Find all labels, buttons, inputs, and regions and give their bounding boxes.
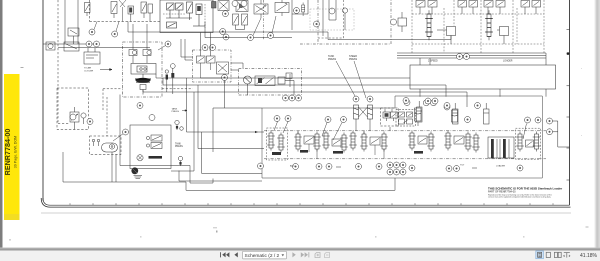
node circle 33c [210, 45, 216, 51]
brake booster oval body [102, 143, 118, 152]
pump bus line 1 [397, 52, 546, 54]
node circle 27b [137, 103, 143, 109]
nav prev-page button [234, 252, 237, 257]
node circle cluster row2 b [394, 169, 400, 175]
svg-text:-: - [581, 133, 582, 137]
bank section S3 relief [332, 139, 341, 146]
main fan valve solid block [160, 0, 213, 33]
view mode icon single page [546, 252, 550, 257]
pilot manifold inner gauge [342, 8, 347, 30]
svg-text:LOADER: LOADER [496, 165, 505, 168]
steering valve element L [383, 109, 390, 121]
svg-text:TO AIR: TO AIR [84, 67, 92, 70]
engine compartment dash-dot enclosure [123, 42, 163, 97]
fan drive manifold dashed enclosure [90, 0, 161, 22]
page corner fold mark [21, 67, 24, 69]
bank section S2 dark port [300, 150, 308, 153]
parking brake port stems [201, 63, 223, 78]
window right edge strip [594, 0, 600, 248]
gauge G1 [81, 113, 86, 124]
node circle 17b [457, 54, 463, 60]
node circle 56 [454, 166, 460, 172]
bank section S7 frame [488, 137, 514, 158]
solenoid valve V2 [111, 2, 117, 19]
pilot manifold faint inner dashed box [310, 9, 354, 30]
bank section S5 dark port [414, 151, 423, 154]
tank bottom long wire [63, 152, 395, 190]
parking brake valve B [207, 33, 216, 64]
node circle 3 [314, 21, 320, 27]
node circle 5 [132, 50, 136, 54]
node circle 6 [147, 50, 151, 54]
long bus wire under manifold [128, 22, 328, 33]
node circle 41 [425, 98, 431, 104]
bus wire Y92 [143, 90, 467, 108]
engine-to-cluster dashed link [162, 88, 193, 90]
parking brake servo box [217, 62, 229, 74]
node circle 19 [94, 41, 100, 47]
svg-text:PRESS: PRESS [328, 58, 337, 61]
charge pump hatch marks [134, 176, 143, 179]
node circle 47 [547, 118, 553, 124]
pump bus label right [503, 60, 513, 63]
node circle 17 [296, 95, 302, 101]
bank section S3 dark port [333, 151, 343, 154]
node circle 22 [367, 96, 373, 102]
manifold to engine pilot wire B [146, 24, 148, 50]
drive pump B servo box [497, 27, 509, 45]
svg-text:PRESS: PRESS [349, 58, 358, 61]
pump bus label left [428, 61, 438, 63]
bank section S1 dashed box [267, 128, 288, 160]
leader circle36 to section1 [274, 122, 288, 134]
bank feed wire upper [187, 78, 265, 132]
steering cluster drop wires [356, 122, 418, 131]
sensor drop wire [120, 95, 190, 166]
statusbar background [0, 251, 600, 261]
left margin note arrow [100, 69, 112, 71]
border zone marker blob [567, 52, 569, 54]
node circle 45 [525, 117, 531, 123]
pilot valve A5 [302, 3, 305, 17]
node circle 42 [432, 98, 438, 104]
crossover X link [356, 107, 370, 124]
tank press label [175, 143, 183, 149]
fan pump outlet fitting [140, 85, 146, 95]
manifold to engine pilot wire A [132, 24, 134, 50]
pump bus line 3 [397, 57, 546, 59]
node circle 21 [353, 96, 359, 102]
bank section S8 leader [523, 124, 527, 140]
svg-text:41.18%: 41.18% [580, 253, 598, 259]
header wire H1 [43, 44, 150, 48]
node circle 34 [232, 1, 238, 7]
hand pump drop wires [248, 81, 295, 96]
node circle 57 [517, 165, 523, 171]
right margin zone letter [581, 66, 582, 137]
svg-text:Schematic (2 / 2: Schematic (2 / 2 [245, 253, 280, 259]
node circle 50 [316, 164, 322, 170]
history forward icon (disabled) [325, 253, 330, 258]
node circle 2 [294, 8, 300, 14]
hystat valve lower [151, 143, 162, 149]
bank section S4 valve box [370, 137, 380, 145]
schematic note title [488, 187, 563, 199]
sensor S2 with circle [165, 70, 168, 92]
bank section S2 spool B [313, 132, 321, 152]
node circle 24b [431, 100, 437, 106]
node circle 18 [464, 54, 470, 60]
separator dash-dot vertical [262, 0, 264, 40]
breather B1 [68, 28, 79, 44]
bank section S4 stems [364, 131, 384, 159]
mid press label [172, 108, 180, 114]
page lower faint edge line [41, 212, 571, 214]
svg-text:PRESS: PRESS [175, 146, 183, 148]
valve assembly A3 [254, 0, 268, 18]
top feed wires into manifold [323, 0, 336, 36]
page faint ruler dots row [9, 227, 589, 241]
schematic sheet border right [569, 0, 571, 205]
parking outlet drop wire [224, 81, 226, 109]
node circle cluster row2 a [387, 169, 393, 175]
node circle 51 [326, 164, 332, 170]
pilot line from engine left [103, 89, 123, 136]
node circle 37 [285, 116, 291, 122]
lift cylinder C1 [417, 101, 423, 122]
node circle 39 [341, 117, 347, 123]
node circle 16 [289, 95, 295, 101]
check valve pair V4 [141, 2, 153, 22]
node circle 43 [444, 103, 450, 109]
svg-text:TANK: TANK [172, 108, 178, 111]
node circle cluster row1 a [387, 162, 393, 168]
bank gallery dash-dot line lower [264, 158, 546, 160]
gauge G3 [175, 120, 179, 130]
tank label with leader [328, 55, 337, 61]
svg-text:PART OF RENR7784-00: PART OF RENR7784-00 [488, 191, 516, 194]
return branch vertical A [64, 0, 66, 44]
shuttle valve cluster box [84, 48, 100, 64]
pump control cluster header boxes group4 [521, 1, 541, 15]
manifold to pump-region connector wire [328, 32, 451, 40]
history back icon (disabled) [315, 253, 320, 258]
node circle 38 [325, 117, 331, 123]
page combo field [243, 251, 287, 259]
node circle 47 stub [553, 121, 558, 132]
bank section S6 spool C [472, 133, 480, 153]
node circle 4 [329, 8, 335, 14]
brake booster port circle [109, 144, 114, 149]
crossover relief pair right spool [368, 105, 373, 119]
pilot supply dashed vertical [58, 0, 70, 124]
bank section S8 spool B [533, 132, 541, 152]
fan pump dark rotor [135, 74, 151, 83]
pilot manifold empty dashed enclosure [300, 0, 391, 44]
view mode icon facing [554, 252, 561, 257]
hand pump fitting [278, 74, 294, 87]
gauge G2 [170, 64, 175, 73]
bank section S5 spool B [427, 132, 435, 152]
node circle cluster row1 c [400, 162, 406, 168]
view mode icon continuous (active) [536, 251, 544, 259]
steer label leader line [354, 61, 366, 98]
svg-text:RENR7784-00: RENR7784-00 [3, 129, 12, 176]
gauge G5 [178, 156, 182, 166]
mid press label arrow [182, 110, 187, 112]
svg-text:39 Page, B/W, DOM: 39 Page, B/W, DOM [14, 136, 18, 168]
cooler outlet drops [420, 89, 546, 97]
main control valve enclosure [262, 96, 542, 178]
parking brake pilot cluster dashed box [193, 50, 232, 82]
valve assembly A4 [275, 0, 289, 16]
return staircase wire [179, 171, 262, 182]
bank section S4 spool B [380, 132, 388, 152]
bank section S5 spool A [408, 131, 416, 151]
node circle 33 [444, 104, 450, 110]
secondary bus wire under manifold [205, 22, 292, 38]
node circle 6b [222, 11, 228, 17]
steering valve dashed box [381, 108, 399, 126]
tow valve small [286, 73, 292, 79]
leader circle 28 to booster [113, 134, 123, 141]
drive pump A spool [425, 10, 433, 40]
leader from circle 1 [94, 22, 119, 32]
yellow document tab [3, 74, 19, 220]
node circle 54 [409, 165, 415, 171]
leader circle 5b [158, 46, 166, 51]
bank exit wire right [558, 121, 570, 147]
steer label with leader [349, 55, 358, 61]
svg-text:2 SPEED: 2 SPEED [428, 61, 438, 63]
brake booster pin valve A [92, 139, 95, 146]
filter F1 [46, 42, 55, 50]
left margin note text [84, 67, 94, 73]
node circle 27 [87, 119, 93, 125]
hand pump circle [244, 76, 252, 84]
node circle 23 [404, 100, 410, 106]
bank section S1 spool B [277, 133, 285, 153]
compensator block dashed [396, 110, 416, 127]
node circle 52 [356, 164, 362, 170]
hand pump valve block [255, 76, 275, 86]
pilot cluster feed wires [181, 39, 193, 60]
pump control cluster header boxes group1 [416, 1, 437, 15]
gauge G4 [180, 127, 184, 131]
bus wire Y85 [163, 78, 446, 97]
nav next-page button (disabled) [292, 252, 295, 257]
svg-text:service manual for updated com: service manual for updated component ide… [488, 195, 552, 198]
statusbar divider band [0, 248, 600, 251]
solenoid valve V1 [85, 3, 91, 17]
bank section S6 valve box [454, 136, 464, 144]
bank feed staircase third [202, 132, 263, 173]
tank label leader line [336, 61, 356, 98]
oil cooler large box [410, 65, 556, 89]
fan return valve pair cluster [233, 14, 248, 30]
steering valve element R [391, 109, 398, 121]
node circle 14 [248, 35, 254, 41]
window left edge strip [0, 0, 3, 248]
brake booster pin valve B [97, 139, 100, 146]
pump bus line 2 [397, 55, 546, 57]
node circle 30 [89, 29, 95, 35]
solenoid valve V3 dark [128, 6, 134, 22]
bank section S6 spool A [444, 131, 452, 151]
node circle cluster row1 b [394, 162, 400, 168]
bank feed wire middle [198, 85, 264, 149]
node circle 28 [123, 129, 129, 135]
node circle 13 [220, 29, 226, 35]
node circle 48 [547, 129, 553, 135]
parking brake valve A [197, 33, 206, 64]
nav first-page button [220, 252, 229, 257]
bank feed arrowhead [255, 131, 258, 133]
node circle 15 [268, 33, 274, 39]
hystat motor circle [137, 155, 143, 161]
bank internal labels [290, 165, 505, 168]
brake accumulator cluster dashed box [57, 88, 89, 130]
node circle 53 [376, 164, 382, 170]
bank section S2 stems [298, 131, 317, 159]
filter F2 [64, 42, 79, 51]
node circle 26 [70, 114, 76, 120]
cooler feed stubs [420, 53, 546, 65]
brake booster dashed box [90, 136, 122, 155]
hystat valve upper pilot circle [146, 136, 149, 139]
bank section S2 spool A [294, 132, 302, 152]
node circle 7 [391, 19, 397, 25]
bank section S1 spool A [267, 131, 275, 151]
node circle 35 [241, 1, 247, 7]
pilot cluster outlet wires [231, 63, 243, 70]
node circle 24 [423, 100, 429, 106]
tank return line vertical [42, 0, 44, 201]
hystat valve upper [151, 135, 162, 141]
bank section S4 spool A [360, 132, 368, 152]
sheet bottom tick marks [70, 203, 553, 205]
enclosure feed vertical [212, 108, 214, 152]
sheet border right tick marks [567, 30, 570, 181]
solenoid block SB0 [398, 12, 407, 32]
svg-text:PRESS: PRESS [172, 111, 180, 113]
charge pump dark circle [131, 167, 138, 174]
drive pump B spool [485, 10, 493, 40]
bank section S3 spool C [349, 131, 357, 151]
leader to valve assembly [253, 16, 276, 36]
svg-text:AUX: AUX [290, 165, 295, 168]
bank section S7 dark spool A [491, 139, 494, 158]
node circle 29 [149, 115, 155, 121]
engine block [131, 64, 156, 75]
crossing pilot lines [119, 0, 126, 22]
bus wire Y78 [156, 74, 410, 78]
hystat valve group box [130, 125, 171, 169]
bank section S8 valve box [526, 140, 534, 147]
view mode icon fit-width [564, 253, 570, 258]
bank gallery dash-dot line upper [264, 130, 546, 132]
pump area dashed drop lines [412, 0, 544, 53]
node circle 18 [86, 41, 92, 47]
brake booster drain wire [112, 152, 116, 182]
bank section S8 dashed box [516, 128, 541, 159]
node circle 36 [274, 116, 280, 122]
bank section S1 dark port [272, 152, 281, 155]
bank feed wire lower [171, 92, 194, 171]
node circle 44 [475, 103, 481, 109]
pump unit P2 body [236, 1, 248, 12]
bank section S6 spool B [464, 132, 472, 152]
svg-text:LOADER: LOADER [503, 60, 513, 63]
node circle 40 [403, 98, 409, 104]
node circle 46 [535, 117, 541, 123]
manifold internal dashes [163, 4, 205, 28]
svg-text:TILT: TILT [460, 165, 465, 167]
compensator internals [399, 112, 413, 124]
accumulator ACC2 [452, 110, 458, 122]
bank section S8 spool A [516, 132, 524, 152]
nav last-page button (disabled) [301, 252, 310, 257]
bank section S5 valve box [418, 136, 427, 144]
sheet border bottom double line [41, 198, 570, 207]
bank section S7 dark spool B [503, 139, 506, 158]
node circle 49b [293, 164, 299, 170]
node circle 5b [165, 41, 171, 47]
pump control cluster header boxes group3 [484, 1, 505, 15]
pilot valve pair above engine [129, 50, 151, 64]
crossover relief pair left spool [354, 105, 359, 119]
hystat valve lower pilot circle [146, 144, 149, 147]
dash label between circles [293, 166, 477, 168]
node circle 55 [446, 166, 452, 172]
hand pump group dashed enclosure [239, 69, 302, 96]
svg-text:COOLER: COOLER [84, 70, 94, 72]
hystat dark port bar [149, 156, 163, 159]
bank section S3 spool A [322, 131, 330, 151]
node circle 34b [222, 75, 228, 81]
bank section S3 spool B [340, 133, 348, 153]
return branch vertical B [77, 0, 79, 44]
node circle 49 [258, 163, 264, 169]
enclosure feed horizontal [213, 107, 262, 109]
bank section S2 valve box [304, 136, 314, 144]
leader circle38 to section3 [322, 123, 342, 141]
pilot staircase vertical [190, 166, 213, 184]
brake valve BV1 [70, 107, 79, 130]
node circle 1 [112, 31, 118, 37]
drive pump A servo box [437, 27, 456, 45]
sensor S1 dark body [171, 73, 174, 94]
pump control cluster header boxes group2 [458, 1, 478, 15]
aux cylinder C3 [484, 103, 490, 124]
node circle 32 [202, 45, 208, 51]
svg-text:TANK: TANK [175, 143, 181, 146]
svg-text:-: - [581, 66, 582, 70]
pilot valve A5 stem [292, 0, 308, 30]
node circle 15a [283, 95, 289, 101]
accumulator ACC1 [415, 108, 422, 121]
node circle 33b [465, 117, 471, 123]
pump unit P1 body [212, 1, 230, 11]
tilt cylinder C2 [453, 103, 459, 124]
node circle 13b [223, 34, 229, 40]
node circle cluster row2 c [400, 169, 406, 175]
dashed link box right of pumps [318, 0, 344, 38]
